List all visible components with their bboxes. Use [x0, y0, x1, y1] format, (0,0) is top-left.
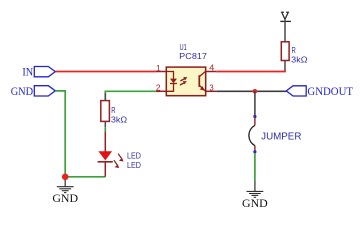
supply symbol V: [280, 12, 291, 21]
U1 emitter line to pin 3: [199, 85, 205, 91]
U1 pin stub 4: [206, 71, 217, 73]
LED emission arrow 2: [114, 160, 119, 168]
jumper top stub (dark red): [254, 118, 256, 126]
U1 emitter arrowhead: [200, 86, 205, 90]
U1 internal anode wire: [166, 72, 173, 79]
svg-text:GNDOUT: GNDOUT: [307, 84, 353, 98]
svg-text:R: R: [111, 105, 115, 115]
jumper JP1 wire from junction (gray): [254, 91, 256, 115]
connector IN: [22, 67, 55, 79]
svg-text:3kΩ: 3kΩ: [291, 55, 307, 65]
svg-text:PC817: PC817: [179, 51, 207, 61]
resistor R1 stub color overlay (gray above resistor): [104, 93, 106, 100]
wire V to R2 (gray): [284, 19, 286, 42]
LED emission arrow 1: [118, 154, 123, 162]
LED anode stub (dark red): [104, 131, 106, 151]
wire resistor bottom stub (gray): [104, 121, 106, 127]
U1 collector line to pin 4: [199, 71, 205, 76]
junction dot on pin3 net: [253, 89, 258, 94]
LED cathode stub down: [104, 162, 106, 177]
resistor R1 body: [101, 101, 110, 122]
svg-text:3: 3: [209, 82, 214, 92]
wire GND net (green, connector to corner): [55, 91, 65, 177]
resistor R2 labels: [291, 45, 307, 65]
jumper bottom stub (dark red): [254, 146, 256, 151]
resistor R1 labels: [111, 105, 127, 125]
U1 photon arrow 1: [180, 77, 187, 81]
U1 photon arrow 2: [180, 81, 187, 85]
junction dot (GND net): [62, 174, 69, 181]
LED D1 cathode bar: [98, 161, 113, 163]
wire GND net horizontal to LED cathode: [65, 176, 105, 178]
U1 internal cathode wire to pin 2: [166, 84, 173, 92]
ground symbol GND (left): [52, 180, 78, 205]
wire net pin3 (dark gray) to GNDOUT: [216, 90, 286, 92]
svg-text:GND: GND: [242, 196, 268, 210]
U1 pin stub 3: [206, 90, 217, 92]
svg-text:LED: LED: [127, 160, 141, 170]
wire net IN (red): [55, 71, 156, 73]
wire net pin4 to R2 (red): [216, 70, 285, 72]
jumper arc: [249, 125, 255, 145]
op-coupler U1 labels: [179, 42, 207, 61]
U1 pin stub 1: [156, 71, 166, 73]
resistor R2 body: [281, 42, 289, 61]
connector GND (left): [11, 86, 56, 98]
svg-text:GND: GND: [52, 191, 78, 205]
svg-text:3kΩ: 3kΩ: [111, 114, 127, 124]
svg-text:IN: IN: [22, 67, 33, 79]
svg-text:GND: GND: [11, 86, 34, 98]
svg-text:4: 4: [209, 62, 215, 72]
svg-text:2: 2: [156, 82, 161, 92]
U1 phototransistor bar: [198, 75, 200, 87]
jumper pin dot bottom (blue): [253, 150, 256, 153]
wire net to R1 (green, pin2 row): [105, 91, 156, 100]
U1 internal LED cathode bar: [170, 83, 177, 85]
optocoupler U1 body: [166, 67, 205, 96]
svg-text:JUMPER: JUMPER: [261, 132, 301, 143]
svg-text:1: 1: [156, 63, 161, 73]
svg-text:R: R: [292, 45, 296, 55]
wire R2 bottom stub (gray): [284, 61, 286, 71]
ground symbol GND (right): [242, 181, 268, 210]
svg-text:LED: LED: [127, 151, 141, 161]
U1 internal LED triangle: [170, 79, 177, 84]
LED D1 triangle: [98, 151, 112, 160]
wire green segment between R1 and LED: [104, 127, 106, 131]
wire jumper to GND (green): [254, 153, 256, 181]
connector GNDOUT: [286, 84, 353, 98]
U1 pin stub 2: [156, 90, 166, 92]
LED labels: [127, 151, 141, 171]
jumper pin dot top (blue): [253, 115, 256, 118]
